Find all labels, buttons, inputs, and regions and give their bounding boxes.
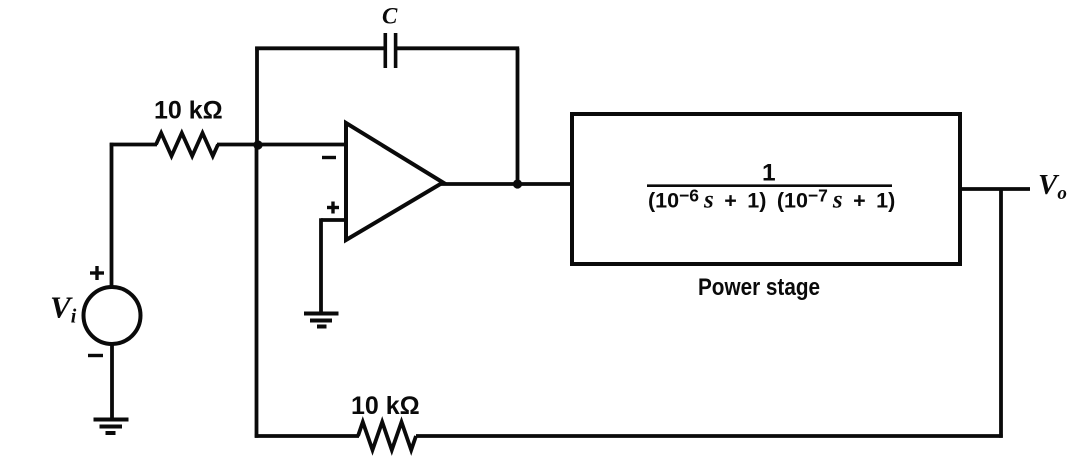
power stage block bbox=[572, 114, 960, 264]
wire: top rail right of capacitor C bbox=[397, 46, 519, 50]
svg-text:Vo: Vo bbox=[1038, 169, 1067, 204]
wire: bottom feedback rail right of R2 bbox=[416, 434, 1003, 438]
op-amp inverting input label − bbox=[322, 156, 336, 159]
wire: power stage output horizontal bbox=[960, 187, 1030, 191]
svg-text:10 kΩ: 10 kΩ bbox=[351, 392, 420, 420]
op-amp U1 triangle bbox=[346, 123, 443, 240]
svg-text:Vi: Vi bbox=[50, 290, 77, 328]
wire: op-amp non-inverting input vertical to ground bbox=[319, 218, 323, 313]
op-amp non-inverting input label + bbox=[327, 202, 339, 214]
svg-text:10 kΩ: 10 kΩ bbox=[154, 97, 223, 125]
ground (op-amp + input) bbox=[304, 314, 339, 327]
resistor R2 zigzag (feedback) bbox=[358, 422, 416, 450]
wire: Vi bottom vertical to ground bbox=[110, 344, 114, 420]
svg-text:C: C bbox=[382, 4, 398, 29]
wire: Vi to resistor R1 bbox=[110, 143, 157, 147]
transfer function fraction bar bbox=[647, 184, 892, 187]
wire: resistor R1 to op-amp inverting input (through node) bbox=[217, 143, 346, 147]
source Vi circle bbox=[84, 287, 141, 344]
wire: bottom feedback rail left of R2 bbox=[255, 434, 359, 438]
wire: Vi top vertical bbox=[110, 143, 114, 287]
svg-text:1: 1 bbox=[762, 160, 776, 187]
svg-text:(10−6 s + 1) (10−7 s + 1): (10−6 s + 1) (10−7 s + 1) bbox=[648, 186, 895, 214]
svg-text:Power stage: Power stage bbox=[698, 274, 820, 301]
wire: feedback right vertical (top rail down to op-amp output node) bbox=[516, 48, 520, 184]
wire: op-amp output to power stage block bbox=[441, 182, 574, 186]
node: inverting input junction bbox=[253, 140, 262, 149]
resistor R1 zigzag bbox=[156, 133, 218, 156]
ground (source Vi) bbox=[94, 420, 129, 434]
capacitor C plates bbox=[385, 33, 395, 68]
wire: top rail left of capacitor C bbox=[255, 46, 384, 50]
wire: node vertical down to bottom feedback rail bbox=[255, 145, 259, 438]
node: op-amp output junction bbox=[513, 179, 522, 188]
Vi plus polarity bbox=[90, 266, 104, 280]
wire: output vertical (Vo node down to feedback rail) bbox=[999, 189, 1003, 438]
wire: op-amp non-inverting input horizontal bbox=[321, 218, 346, 222]
Vi minus polarity bbox=[88, 354, 103, 357]
wire: feedback left vertical (node to top rail) bbox=[255, 47, 259, 146]
